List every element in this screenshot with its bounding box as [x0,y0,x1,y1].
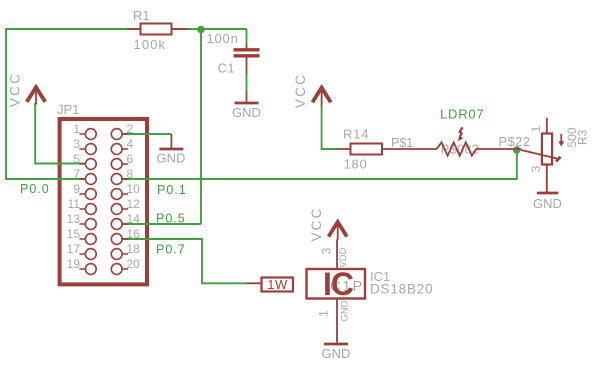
svg-text:10: 10 [127,182,141,196]
svg-text:VCC: VCC [309,206,324,241]
svg-text:IC: IC [323,266,354,302]
svg-text:6: 6 [127,152,134,166]
svg-text:11: 11 [68,197,81,211]
svg-text:17: 17 [67,242,81,256]
svg-text:GND: GND [340,300,351,321]
svg-text:12: 12 [127,197,141,211]
svg-text:GND: GND [322,346,351,361]
svg-text:VCC: VCC [8,72,23,107]
svg-text:20: 20 [127,257,141,271]
svg-text:P0.0: P0.0 [20,182,50,196]
svg-text:4: 4 [127,137,134,151]
svg-text:1: 1 [73,122,80,136]
svg-text:100n: 100n [207,31,239,46]
svg-text:VCC: VCC [293,73,308,108]
svg-text:1: 1 [529,125,543,132]
svg-text:18: 18 [127,242,141,256]
svg-text:GND: GND [232,105,261,120]
svg-text:C1: C1 [218,61,236,76]
svg-text:GND: GND [533,196,562,211]
svg-text:3: 3 [320,247,334,254]
svg-text:19: 19 [67,257,81,271]
svg-text:1W: 1W [267,277,288,292]
svg-text:9: 9 [73,182,80,196]
svg-text:5: 5 [73,152,80,166]
svg-text:DS18B20: DS18B20 [370,282,433,297]
svg-text:P$22: P$22 [499,135,531,149]
svg-text:P$1: P$1 [391,136,413,150]
svg-text:16: 16 [127,227,141,241]
svg-text:R1: R1 [133,8,150,23]
svg-text:3: 3 [73,137,80,151]
svg-text:JP1: JP1 [57,102,79,117]
svg-text:15: 15 [67,227,81,241]
svg-text:P0.5: P0.5 [156,212,186,226]
svg-text:LDR07: LDR07 [440,107,484,122]
svg-text:GND: GND [157,151,186,166]
svg-text:P0.1: P0.1 [157,183,187,197]
svg-text:R3: R3 [576,130,590,146]
svg-text:3: 3 [529,165,543,172]
svg-text:8: 8 [127,167,134,181]
svg-text:180: 180 [344,157,368,172]
svg-text:13: 13 [67,212,81,226]
svg-text:R14: R14 [343,127,369,142]
svg-text:VDD: VDD [338,247,349,267]
svg-text:P0.7: P0.7 [156,243,186,257]
svg-text:14: 14 [127,212,141,226]
svg-text:100k: 100k [134,37,167,52]
svg-text:2: 2 [127,122,134,136]
svg-text:7: 7 [73,167,80,181]
svg-text:1: 1 [317,310,331,317]
